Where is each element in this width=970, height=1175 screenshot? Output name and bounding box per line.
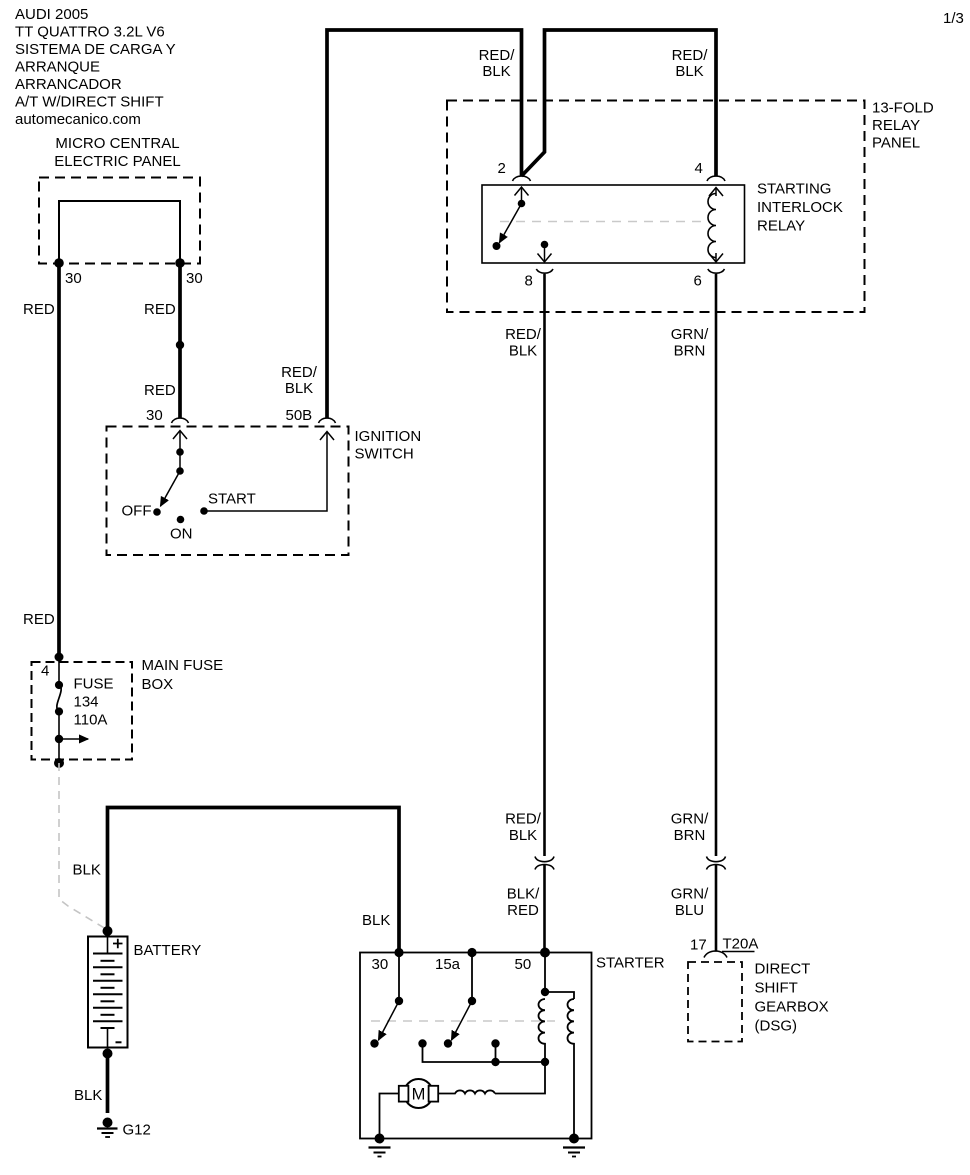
- svg-text:RED/: RED/: [672, 47, 709, 64]
- battery bottom stub: [107, 1028, 109, 1048]
- 13-fold relay panel dashed box: [447, 101, 865, 313]
- starter switch 15a stem: [471, 953, 473, 1002]
- svg-text:SWITCH: SWITCH: [355, 446, 414, 463]
- relay coil arrow up at pin 4: [715, 188, 717, 197]
- svg-text:BRN: BRN: [674, 827, 706, 844]
- svg-text:ARRANCADOR: ARRANCADOR: [15, 76, 122, 93]
- ignition switch throw arm to OFF: [161, 471, 181, 506]
- inline connector on starter wire: [535, 857, 554, 862]
- DSG pin 17 connector cap: [704, 951, 727, 958]
- node terminal 30 left: [54, 258, 64, 268]
- svg-text:RELAY: RELAY: [872, 117, 920, 134]
- starter pin 50 node: [540, 948, 550, 958]
- battery plus sign: [113, 939, 123, 948]
- relay switch throw arm: [500, 204, 522, 243]
- hold-in coil: [568, 999, 575, 1139]
- svg-text:BLK/: BLK/: [507, 886, 540, 903]
- svg-text:ON: ON: [170, 526, 193, 543]
- relay coil arrow down at pin 6: [715, 253, 717, 262]
- starter switch 15a pivot node: [468, 997, 476, 1005]
- wire c2 drop: [495, 1044, 497, 1063]
- starter switch 30 contact node: [370, 1039, 378, 1047]
- svg-text:AUDI 2005: AUDI 2005: [15, 6, 88, 23]
- svg-text:START: START: [208, 491, 256, 508]
- svg-text:A/T W/DIRECT SHIFT: A/T W/DIRECT SHIFT: [15, 94, 164, 111]
- START contact node: [200, 507, 208, 515]
- wire RED/BLK from relay pin 8 down to connector: [543, 274, 546, 856]
- ignition switch node b: [176, 467, 184, 475]
- svg-text:2: 2: [498, 160, 506, 177]
- starter pin 15a node: [467, 948, 476, 957]
- svg-text:(DSG): (DSG): [755, 1018, 798, 1035]
- gray dashed link fuse box to battery positive: [59, 763, 108, 930]
- svg-text:15a: 15a: [435, 956, 461, 973]
- gray dashed divider inside relay: [500, 221, 706, 223]
- svg-text:GEARBOX: GEARBOX: [755, 999, 829, 1016]
- field winding inductor: [439, 1090, 496, 1093]
- pin 6 connector cup: [708, 269, 725, 273]
- wire RED/BLK linking relay pin 2 and pin 4 over the top: [522, 30, 717, 176]
- svg-text:30: 30: [65, 270, 82, 287]
- svg-text:BLK: BLK: [675, 63, 703, 80]
- wire into fuse: [58, 657, 60, 687]
- battery plates: [93, 954, 123, 1029]
- pin 8 connector cup: [536, 269, 553, 273]
- junction on RED wire: [176, 341, 184, 349]
- svg-text:17: 17: [690, 937, 707, 954]
- battery minus sign: [116, 1041, 122, 1043]
- svg-text:FUSE: FUSE: [74, 676, 114, 693]
- svg-text:RED/: RED/: [505, 811, 542, 828]
- fuse output tap node: [55, 735, 63, 743]
- relay switch pivot node: [518, 200, 526, 208]
- starter ground left: [369, 1148, 391, 1157]
- wire BLK battery positive to starter 30: [108, 808, 400, 953]
- svg-text:BLK: BLK: [285, 380, 313, 397]
- relay switch arm pin 2 arrow up: [521, 187, 523, 204]
- bus bar inside micro central panel: [59, 201, 180, 263]
- svg-text:T20A: T20A: [723, 936, 759, 953]
- battery positive node: [103, 926, 113, 936]
- svg-text:6: 6: [694, 273, 702, 290]
- svg-text:BLK: BLK: [509, 343, 537, 360]
- battery negative node: [103, 1049, 113, 1059]
- wire motor left brush to ground: [380, 1094, 399, 1139]
- relay switch contact node: [493, 242, 501, 250]
- svg-text:RED: RED: [23, 611, 55, 628]
- ignition switch stem: [179, 452, 181, 471]
- starting interlock relay box U1: [482, 185, 745, 263]
- svg-text:BOX: BOX: [142, 676, 174, 693]
- main fuse box dashed box: [32, 662, 133, 760]
- svg-text:4: 4: [41, 663, 49, 680]
- svg-text:GRN/: GRN/: [671, 811, 709, 828]
- wire GRN/BLU from connector down to DSG pin 17: [715, 865, 718, 951]
- starter switch 30 throw arm: [379, 1001, 400, 1040]
- ignition switch node a: [176, 448, 184, 456]
- inline connector on gearbox wire: [707, 857, 726, 862]
- starter pin 30 node: [394, 948, 403, 957]
- junction node on bus: [491, 1058, 499, 1066]
- wire BLK/RED from connector down to starter pin 50: [543, 865, 546, 953]
- svg-text:BLU: BLU: [675, 902, 704, 919]
- svg-text:STARTING: STARTING: [757, 181, 831, 198]
- svg-text:4: 4: [695, 160, 703, 177]
- starter ground right: [563, 1148, 585, 1157]
- svg-text:134: 134: [74, 694, 99, 711]
- wire to hold-in coil: [545, 992, 574, 999]
- wire fuse to output node: [58, 711, 60, 763]
- svg-text:RED/: RED/: [505, 326, 542, 343]
- ground G12: [103, 1118, 113, 1128]
- svg-text:RED/: RED/: [281, 364, 318, 381]
- relay pin 8 node: [541, 241, 549, 249]
- svg-text:8: 8: [525, 273, 533, 290]
- starter switch 30 stem: [398, 953, 400, 1002]
- OFF contact node: [153, 508, 161, 516]
- svg-text:RED: RED: [507, 902, 539, 919]
- starter contact node c1: [418, 1039, 426, 1047]
- fuse box bottom node: [54, 758, 64, 768]
- direct shift gearbox dashed box: [688, 962, 742, 1042]
- svg-text:110A: 110A: [74, 712, 108, 729]
- svg-text:STARTER: STARTER: [596, 955, 665, 972]
- svg-text:RED/: RED/: [479, 47, 516, 64]
- motor M armature: [404, 1079, 433, 1108]
- svg-text:IGNITION: IGNITION: [355, 428, 422, 445]
- micro central electric panel dashed box: [39, 178, 200, 264]
- node terminal 30 right: [175, 258, 185, 268]
- battery top stub: [107, 937, 109, 954]
- svg-text:MAIN FUSE: MAIN FUSE: [142, 657, 224, 674]
- wire pull-in coil to armature branch: [495, 1062, 545, 1094]
- svg-text:G12: G12: [123, 1122, 151, 1139]
- starter box: [360, 953, 592, 1139]
- T20A underline: [722, 951, 755, 953]
- battery BAT: [88, 937, 128, 1048]
- starter ground right node: [569, 1134, 579, 1144]
- svg-text:MICRO CENTRAL: MICRO CENTRAL: [55, 135, 179, 152]
- svg-text:INTERLOCK: INTERLOCK: [757, 199, 843, 216]
- starter switch 15a throw arm: [452, 1001, 473, 1040]
- ignition switch dashed box: [107, 427, 349, 556]
- svg-text:1/3: 1/3: [943, 10, 964, 27]
- svg-text:GRN/: GRN/: [671, 886, 709, 903]
- svg-text:OFF: OFF: [122, 503, 152, 520]
- svg-text:BATTERY: BATTERY: [134, 942, 202, 959]
- ignition pin 30 arrow up: [179, 431, 181, 453]
- svg-text:50B: 50B: [286, 407, 313, 424]
- fuse F134 110A: [55, 681, 63, 689]
- svg-text:RED: RED: [23, 301, 55, 318]
- svg-text:BLK: BLK: [73, 862, 101, 879]
- ON contact node: [177, 516, 185, 524]
- pin 30 connector cap: [172, 418, 189, 423]
- svg-text:RED: RED: [144, 301, 176, 318]
- svg-text:ELECTRIC PANEL: ELECTRIC PANEL: [54, 153, 180, 170]
- fuse output arrow right: [59, 738, 88, 740]
- svg-text:M: M: [412, 1086, 426, 1104]
- svg-text:BLK: BLK: [74, 1087, 102, 1104]
- svg-text:BLK: BLK: [482, 63, 510, 80]
- solenoid junction node: [541, 988, 549, 996]
- svg-text:GRN/: GRN/: [671, 326, 709, 343]
- svg-text:automecanico.com: automecanico.com: [15, 111, 141, 128]
- svg-text:30: 30: [186, 270, 203, 287]
- svg-text:30: 30: [372, 956, 389, 973]
- svg-text:13-FOLD: 13-FOLD: [872, 100, 934, 117]
- starter ground left node: [375, 1134, 385, 1144]
- svg-text:RED: RED: [144, 382, 176, 399]
- svg-text:BLK: BLK: [362, 912, 390, 929]
- wire RED from panel left 30 down to main fuse box: [57, 263, 61, 657]
- pin 4 connector cap: [707, 176, 725, 181]
- svg-text:BRN: BRN: [674, 343, 706, 360]
- pin 2 connector cap: [513, 176, 531, 181]
- wire START contact to pin 50B: [204, 432, 327, 512]
- wire RED/BLK from ignition 50B up and over to relay pin 2: [327, 30, 522, 418]
- svg-text:SISTEMA DE CARGA Y: SISTEMA DE CARGA Y: [15, 41, 176, 58]
- svg-text:TT QUATTRO 3.2L V6: TT QUATTRO 3.2L V6: [15, 24, 165, 41]
- svg-text:RELAY: RELAY: [757, 218, 805, 235]
- wire contacts bus: [423, 1044, 546, 1063]
- starter pin 50 stem: [544, 953, 546, 993]
- svg-text:30: 30: [146, 407, 163, 424]
- wire BLK battery negative to ground: [106, 1054, 110, 1114]
- title text block: [15, 6, 176, 128]
- svg-text:ARRANQUE: ARRANQUE: [15, 59, 100, 76]
- pin 50B connector cap: [319, 418, 336, 423]
- gray dashed divider inside starter: [371, 1020, 555, 1022]
- relay pin 8 arrow down: [544, 245, 546, 263]
- svg-text:PANEL: PANEL: [872, 135, 920, 152]
- svg-text:DIRECT: DIRECT: [755, 961, 811, 978]
- svg-text:SHIFT: SHIFT: [755, 980, 798, 997]
- pull-in coil: [539, 999, 546, 1062]
- starter switch 15a contact node: [444, 1039, 452, 1047]
- svg-text:BLK: BLK: [509, 827, 537, 844]
- starter switch 30 pivot node: [395, 997, 403, 1005]
- wire GRN/BRN from relay pin 6 down to connector: [715, 274, 718, 856]
- starter contact node c2: [491, 1039, 499, 1047]
- junction node coil bottom: [541, 1058, 549, 1066]
- svg-text:50: 50: [515, 956, 532, 973]
- junction node above fuse box: [55, 653, 64, 662]
- wire RED from panel right 30 down to ignition switch 30: [178, 263, 182, 418]
- relay coil L1: [708, 194, 716, 258]
